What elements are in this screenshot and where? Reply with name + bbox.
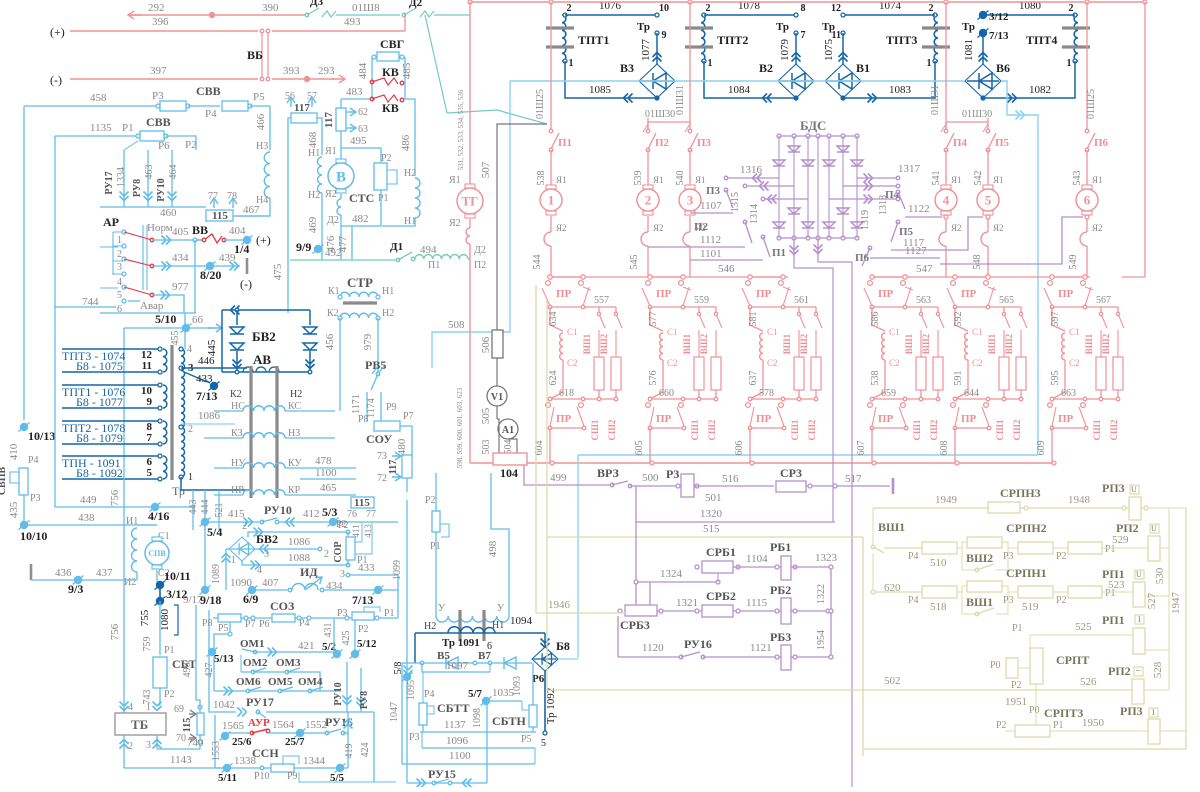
wires 424 <box>373 712 375 782</box>
svg-text:(-): (-) <box>50 73 62 87</box>
svg-text:Я1: Я1 <box>556 175 567 185</box>
diodes B5 B7 <box>402 662 532 664</box>
svg-text:С2: С2 <box>667 358 678 368</box>
svg-text:СПВ: СПВ <box>148 549 166 558</box>
svg-text:ОМ5: ОМ5 <box>268 676 293 688</box>
svg-text:Р5: Р5 <box>253 91 265 103</box>
svg-text:1075: 1075 <box>823 39 835 62</box>
svg-text:548: 548 <box>972 255 983 270</box>
wire to RU15 row <box>299 772 396 782</box>
svg-text:СВВ: СВВ <box>146 115 171 129</box>
svg-text:530: 530 <box>1154 567 1166 584</box>
svg-text:1089: 1089 <box>211 564 222 584</box>
svg-text:СШ1: СШ1 <box>590 419 600 440</box>
wire 1565 AUR row <box>214 715 216 768</box>
current transformer ТПТ4 <box>1074 15 1078 61</box>
bottom PR contacts 606 <box>749 398 816 400</box>
wire 1097 <box>422 663 490 672</box>
svg-text:Р7: Р7 <box>403 411 414 422</box>
svg-text:Р1: Р1 <box>1012 623 1023 634</box>
svg-text:542: 542 <box>973 171 984 186</box>
svg-text:Д2: Д2 <box>327 215 339 226</box>
bottom PR contacts 604 <box>549 398 616 400</box>
svg-text:СРБ2: СРБ2 <box>706 589 736 603</box>
wire 1085 <box>565 61 657 98</box>
svg-text:1112: 1112 <box>700 234 721 246</box>
svg-text:ТБ: ТБ <box>131 717 148 732</box>
svg-text:Р2: Р2 <box>164 689 175 700</box>
svg-text:117: 117 <box>294 102 310 114</box>
svg-text:576: 576 <box>648 371 659 386</box>
wire 1107 <box>690 212 733 214</box>
svg-text:1321: 1321 <box>676 597 698 609</box>
svg-text:С2: С2 <box>767 358 778 368</box>
svg-text:РП2: РП2 <box>1108 664 1131 678</box>
svg-text:ВШ2: ВШ2 <box>699 333 709 354</box>
feeder P6 vertical <box>1086 2 1088 118</box>
row SRPN2 <box>884 547 922 549</box>
svg-text:421: 421 <box>298 640 315 652</box>
relay SRB3 <box>625 605 657 616</box>
wire 756 vertical <box>123 460 125 713</box>
svg-text:76: 76 <box>347 509 357 520</box>
svg-text:И1: И1 <box>126 516 138 527</box>
wire 10/13 chain <box>20 423 28 431</box>
svg-text:517: 517 <box>845 473 862 485</box>
resistor group PR 565 top contacts <box>955 276 988 278</box>
wire 1117 <box>891 217 983 250</box>
svg-text:У: У <box>438 603 446 614</box>
svg-text:527: 527 <box>1146 592 1158 609</box>
svg-text:Р2: Р2 <box>1011 680 1022 691</box>
svg-text:482: 482 <box>352 213 369 225</box>
wire right edge <box>1144 2 1146 277</box>
svg-text:СОР: СОР <box>333 541 344 562</box>
svg-text:ВШ1: ВШ1 <box>966 595 993 609</box>
wire 449 <box>55 307 195 507</box>
wire 484 vertical <box>371 57 373 99</box>
wire 1315 <box>745 185 794 187</box>
svg-text:Д1: Д1 <box>390 241 403 253</box>
svg-text:5/10: 5/10 <box>155 312 176 326</box>
traction motor 1 <box>546 185 556 189</box>
svg-text:РУ8: РУ8 <box>132 179 143 197</box>
wire 1047 vertical <box>401 663 403 764</box>
svg-text:Я2: Я2 <box>951 223 962 233</box>
svg-text:Р1: Р1 <box>378 193 389 204</box>
svg-text:563: 563 <box>916 295 931 306</box>
svg-text:РП3: РП3 <box>1102 481 1125 495</box>
wire 1101 <box>690 259 763 261</box>
svg-text:498: 498 <box>487 540 499 557</box>
svg-text:СРПН2: СРПН2 <box>1006 521 1047 535</box>
svg-text:С2: С2 <box>972 358 983 368</box>
BDS diodes upper <box>788 146 800 152</box>
svg-text:(-): (-) <box>240 277 252 291</box>
svg-text:466: 466 <box>255 113 267 130</box>
svg-text:1082: 1082 <box>1029 84 1051 96</box>
svg-text:СШ2: СШ2 <box>707 419 717 440</box>
coil under motor 4 <box>945 216 947 232</box>
wire 1122 <box>905 216 942 218</box>
coil C1-C2 577 <box>650 307 663 331</box>
svg-text:449: 449 <box>80 494 97 506</box>
svg-text:ПР: ПР <box>878 288 894 300</box>
svg-text:495: 495 <box>350 135 367 147</box>
wire 539 <box>647 150 649 188</box>
svg-text:Р7: Р7 <box>245 619 256 630</box>
svg-text:292: 292 <box>148 2 165 14</box>
purple right vertical 1322/1954 <box>830 567 832 657</box>
svg-text:2: 2 <box>117 249 122 260</box>
resistor SVPV <box>19 468 28 495</box>
svg-text:507: 507 <box>480 161 492 178</box>
svg-text:В6: В6 <box>996 61 1010 75</box>
contact VSh1 bypass <box>962 592 977 614</box>
wire 483 <box>341 98 372 100</box>
feeder P1 vertical <box>550 2 552 118</box>
wire 66 with arrow <box>124 327 212 329</box>
svg-text:Я2: Я2 <box>449 218 461 229</box>
wire 292/390 top line <box>128 14 305 16</box>
feeder P2/P3 vertical <box>689 2 691 118</box>
svg-text:Н2: Н2 <box>404 168 416 179</box>
svg-text:3: 3 <box>340 569 345 580</box>
svg-text:410: 410 <box>8 443 20 460</box>
wire collector light blue <box>578 454 1038 456</box>
wire 460 <box>100 206 206 208</box>
svg-text:115: 115 <box>182 718 193 732</box>
svg-text:Р8: Р8 <box>358 414 369 425</box>
svg-text:1120: 1120 <box>642 642 664 654</box>
current transformer ТПТ2 <box>701 15 705 61</box>
disconnect D3 <box>305 13 309 17</box>
svg-text:7/13: 7/13 <box>352 593 373 607</box>
svg-text:С1: С1 <box>667 327 678 337</box>
svg-text:Р1: Р1 <box>122 122 134 134</box>
disconnect П3 <box>689 118 691 131</box>
svg-text:526: 526 <box>1080 676 1097 688</box>
svg-text:РУ10: РУ10 <box>333 682 344 705</box>
svg-text:1077: 1077 <box>640 39 652 62</box>
svg-text:Р5: Р5 <box>521 734 532 745</box>
resistor SOU <box>374 421 400 431</box>
resistor group PR 561 top contacts <box>750 276 783 278</box>
wire 01Sh8 teal <box>336 14 400 16</box>
svg-text:5: 5 <box>985 193 992 208</box>
svg-text:Авар: Авар <box>140 300 164 312</box>
svg-text:4: 4 <box>943 193 950 208</box>
svg-text:К2: К2 <box>327 308 339 319</box>
svg-text:РУ8: РУ8 <box>359 691 370 709</box>
svg-text:586: 586 <box>870 312 881 327</box>
svg-text:69: 69 <box>174 704 184 715</box>
resistor group PR 557 top contacts <box>550 276 583 278</box>
svg-text:Р9: Р9 <box>386 402 397 413</box>
svg-text:10/11: 10/11 <box>164 569 191 583</box>
svg-text:557: 557 <box>594 295 609 306</box>
svg-text:Я1: Я1 <box>1092 175 1103 185</box>
node (+) 1/4 <box>243 236 251 244</box>
svg-text:Р3: Р3 <box>1003 595 1014 606</box>
svg-text:70: 70 <box>176 733 186 744</box>
wire 1135 <box>55 135 138 137</box>
svg-text:1317: 1317 <box>898 163 921 175</box>
svg-text:598, 599, 600, 601, 603, 623: 598, 599, 600, 601, 603, 623 <box>456 387 464 468</box>
svg-text:456: 456 <box>324 333 336 350</box>
svg-text:1/4: 1/4 <box>234 242 249 256</box>
node 10/10 <box>20 521 28 529</box>
svg-text:ВШ1: ВШ1 <box>782 333 792 354</box>
wire 438 <box>24 524 157 526</box>
svg-text:455: 455 <box>170 331 181 346</box>
disconnect П4 <box>945 118 947 131</box>
svg-text:Д2: Д2 <box>409 0 423 9</box>
node 7/13 marker <box>979 29 987 37</box>
coil C1-C2 586 <box>872 307 885 331</box>
svg-text:508: 508 <box>448 319 465 331</box>
coil under motor 1 <box>550 216 552 232</box>
svg-text:П1: П1 <box>558 137 572 149</box>
svg-text:ПР: ПР <box>961 413 977 425</box>
svg-text:ОМ3: ОМ3 <box>276 657 301 669</box>
svg-text:437: 437 <box>96 567 113 579</box>
svg-text:1: 1 <box>1067 58 1072 69</box>
svg-text:546: 546 <box>718 263 735 275</box>
svg-text:Р6: Р6 <box>532 673 545 685</box>
svg-text:СТР: СТР <box>347 275 373 290</box>
svg-text:ОМ6: ОМ6 <box>236 676 261 688</box>
svg-text:01Ш31: 01Ш31 <box>675 85 686 115</box>
svg-text:1: 1 <box>231 555 236 566</box>
wire 1086 stub <box>255 548 318 550</box>
svg-text:Р0: Р0 <box>1029 705 1040 716</box>
svg-text:Н1: Н1 <box>308 148 320 159</box>
svg-text:2: 2 <box>929 3 934 14</box>
resistor 117 vertical <box>340 99 342 108</box>
svg-text:ВРЗ: ВРЗ <box>597 466 619 480</box>
wire 755 dark chain <box>156 570 158 583</box>
svg-text:543: 543 <box>1072 171 1083 186</box>
svg-text:407: 407 <box>262 577 279 589</box>
svg-text:1565: 1565 <box>222 720 245 732</box>
svg-text:СРБ3: СРБ3 <box>620 618 650 632</box>
svg-text:Тр 1092: Тр 1092 <box>545 688 557 725</box>
svg-text:66: 66 <box>192 314 204 326</box>
svg-text:1323: 1323 <box>815 552 838 564</box>
svg-text:БДС: БДС <box>800 118 826 133</box>
svg-text:567: 567 <box>1096 295 1111 306</box>
svg-text:644: 644 <box>964 388 979 399</box>
svg-text:(+): (+) <box>50 25 65 39</box>
svg-text:К2: К2 <box>230 389 242 400</box>
svg-text:С1: С1 <box>567 327 578 337</box>
resistor group PR 559 top contacts <box>650 276 683 278</box>
svg-text:4: 4 <box>257 565 262 576</box>
svg-text:Р4: Р4 <box>908 595 919 606</box>
ground terminal <box>246 258 249 274</box>
svg-text:ВШ2: ВШ2 <box>921 333 931 354</box>
svg-text:ВШ2: ВШ2 <box>966 551 993 565</box>
shunt resistors VSh 557 <box>598 307 600 314</box>
svg-text:Я1: Я1 <box>449 175 461 186</box>
svg-text:445: 445 <box>206 339 218 356</box>
svg-text:Р3: Р3 <box>152 90 164 102</box>
svg-text:756: 756 <box>109 623 121 640</box>
svg-text:ВБ: ВБ <box>247 48 263 62</box>
svg-text:463: 463 <box>144 165 155 180</box>
voltmeter V1 <box>496 358 498 386</box>
svg-text:ПР: ПР <box>1058 288 1074 300</box>
svg-text:1: 1 <box>569 58 574 69</box>
switch VV <box>196 239 204 241</box>
svg-text:25/7: 25/7 <box>285 736 305 748</box>
wire 1324 <box>635 522 637 582</box>
svg-text:1: 1 <box>188 472 193 483</box>
svg-text:01Ш25: 01Ш25 <box>1086 89 1097 119</box>
svg-text:Д3: Д3 <box>310 0 324 8</box>
svg-text:740: 740 <box>187 737 204 749</box>
svg-text:77: 77 <box>366 509 376 520</box>
svg-text:СОУ: СОУ <box>366 432 392 446</box>
svg-text:5/8: 5/8 <box>393 662 404 675</box>
svg-text:1107: 1107 <box>700 200 722 212</box>
svg-text:1951: 1951 <box>1005 696 1027 708</box>
svg-text:Я1: Я1 <box>695 175 706 185</box>
svg-text:Р2: Р2 <box>336 519 347 530</box>
svg-text:504: 504 <box>503 440 514 455</box>
svg-text:1319: 1319 <box>860 210 871 230</box>
svg-text:СРБ1: СРБ1 <box>706 545 736 559</box>
svg-text:404: 404 <box>229 225 246 237</box>
svg-text:П1: П1 <box>428 260 440 271</box>
svg-text:1946: 1946 <box>548 599 571 611</box>
svg-text:ВШ2: ВШ2 <box>599 333 609 354</box>
svg-text:П4: П4 <box>953 137 968 149</box>
wire D1 teal <box>290 259 398 261</box>
svg-text:538: 538 <box>536 171 547 186</box>
svg-text:1315: 1315 <box>730 192 741 212</box>
svg-text:503: 503 <box>481 440 492 455</box>
svg-text:528: 528 <box>1152 661 1164 678</box>
wire 1084 <box>704 61 796 98</box>
svg-text:419: 419 <box>344 744 355 759</box>
resistor 117 lower <box>402 455 412 478</box>
disconnect П6 <box>1086 118 1088 131</box>
bottom PR contacts 607 <box>871 398 938 400</box>
resistor 115 <box>206 210 233 221</box>
svg-text:115: 115 <box>354 497 370 509</box>
svg-text:9/9: 9/9 <box>296 240 311 254</box>
svg-text:U: U <box>1136 570 1142 579</box>
svg-text:Тр: Тр <box>637 21 650 33</box>
svg-text:ОМ2: ОМ2 <box>243 657 268 669</box>
bottom PR contacts 609 <box>1051 398 1118 400</box>
transformer Tr secondary <box>181 349 185 477</box>
svg-text:1095: 1095 <box>406 680 417 700</box>
resistor group PR 563 top contacts <box>872 276 905 278</box>
relay panel SRPN3 <box>873 507 988 509</box>
contact VSh2 bypass <box>962 548 977 570</box>
svg-text:ОМ1: ОМ1 <box>240 638 264 650</box>
svg-text:1101: 1101 <box>700 248 722 260</box>
svg-text:492: 492 <box>325 247 342 259</box>
svg-text:Р10: Р10 <box>254 771 270 782</box>
svg-text:СШ1: СШ1 <box>995 419 1005 440</box>
wire 508 branch <box>432 81 510 368</box>
svg-text:637: 637 <box>748 371 759 386</box>
svg-text:1047: 1047 <box>389 702 400 722</box>
svg-text:5: 5 <box>541 738 546 749</box>
svg-text:ПР: ПР <box>1058 413 1074 425</box>
svg-text:Р2: Р2 <box>425 495 436 506</box>
svg-text:А1: А1 <box>502 425 514 436</box>
svg-text:1096: 1096 <box>446 735 469 747</box>
feeder P4/P5 vertical <box>945 2 947 118</box>
traction motor 3 <box>685 185 695 189</box>
svg-text:СВВ: СВВ <box>196 84 221 98</box>
gray wire 507 <box>497 124 547 330</box>
svg-text:СШ2: СШ2 <box>607 419 617 440</box>
svg-text:КВ: КВ <box>382 101 399 115</box>
wire 458 <box>24 105 158 107</box>
svg-text:СРПН3: СРПН3 <box>1000 486 1041 500</box>
svg-text:РБ1: РБ1 <box>770 540 791 554</box>
svg-text:1954: 1954 <box>816 630 827 650</box>
BDS diodes lower <box>788 208 800 214</box>
svg-text:424: 424 <box>360 743 371 758</box>
svg-text:Б8 - 1077: Б8 - 1077 <box>76 395 123 409</box>
svg-text:ТПТ3: ТПТ3 <box>886 33 917 47</box>
svg-text:756: 756 <box>109 489 121 506</box>
svg-text:1314: 1314 <box>749 204 760 224</box>
svg-text:10: 10 <box>659 3 669 14</box>
svg-text:433: 433 <box>358 562 375 574</box>
svg-text:634: 634 <box>548 312 559 327</box>
svg-text:1137: 1137 <box>444 719 466 731</box>
svg-text:547: 547 <box>916 263 933 275</box>
svg-text:РУ17: РУ17 <box>246 695 274 709</box>
svg-text:1552: 1552 <box>305 719 327 731</box>
svg-text:Р1: Р1 <box>164 645 175 656</box>
wire 1042 RU17 <box>209 700 236 712</box>
svg-text:5: 5 <box>117 290 122 301</box>
svg-text:1: 1 <box>117 235 122 246</box>
shunt resistors VSh 567 <box>1100 307 1102 314</box>
svg-text:1084: 1084 <box>728 84 751 96</box>
wire 1137 <box>420 731 536 733</box>
svg-text:Р3: Р3 <box>409 732 420 743</box>
svg-text:СТС: СТС <box>349 191 374 205</box>
svg-text:561: 561 <box>794 295 809 306</box>
svg-text:499: 499 <box>550 472 567 484</box>
svg-text:755: 755 <box>139 609 151 626</box>
svg-text:РУ10: РУ10 <box>264 503 292 517</box>
svg-text:521: 521 <box>214 503 225 518</box>
motor V <box>336 159 346 163</box>
svg-text:Р3: Р3 <box>337 608 348 619</box>
coil under motor 2 <box>647 216 649 232</box>
tap 3 wire 446 <box>179 366 183 370</box>
svg-text:В2: В2 <box>759 61 773 75</box>
wire 482 <box>341 225 381 227</box>
svg-text:АР: АР <box>103 215 119 229</box>
coil C1-C2 634 <box>550 307 563 331</box>
disconnect П2 <box>647 118 649 131</box>
wire RU10 row <box>201 518 209 526</box>
svg-text:538: 538 <box>870 371 881 386</box>
svg-text:73: 73 <box>377 451 387 462</box>
